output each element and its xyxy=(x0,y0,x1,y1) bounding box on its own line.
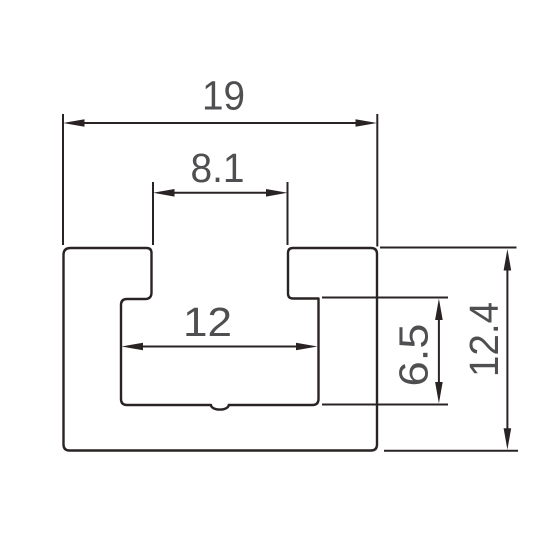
dimension 8.1: right arrowhead xyxy=(266,189,288,197)
dimension 12.4: extension line top xyxy=(380,247,517,249)
dimension 12.4: extension line bottom xyxy=(384,450,518,452)
svg-text:12: 12 xyxy=(183,299,232,345)
dimension 12: dimension line xyxy=(140,346,299,348)
dimension 6.5: extension line bottom xyxy=(322,404,448,406)
dimension 6.5: bottom arrowhead xyxy=(435,382,443,404)
dimension 8.1: dimension line xyxy=(172,192,269,194)
svg-text:6.5: 6.5 xyxy=(391,324,437,387)
dimension 12: right arrowhead xyxy=(296,343,318,351)
svg-text:19: 19 xyxy=(202,73,245,119)
dimension 19: dimension line xyxy=(82,122,358,124)
dimension 12.4: bottom arrowhead xyxy=(504,428,512,450)
dimension 19: right arrowhead xyxy=(356,119,378,127)
dimension 8.1: extension line left xyxy=(152,182,154,245)
dimension 8.1: left arrowhead xyxy=(153,189,175,197)
dimension 6.5: extension line top xyxy=(322,297,448,299)
dimension 19: extension line right xyxy=(376,114,378,247)
dimension 19: extension line left xyxy=(62,114,64,245)
profile outline (T-slot cross-section) xyxy=(64,248,378,451)
svg-text:12.4: 12.4 xyxy=(461,302,507,377)
svg-text:8.1: 8.1 xyxy=(191,145,245,191)
dimension 19: left arrowhead xyxy=(63,119,85,127)
dimension 12.4: dimension line xyxy=(506,267,508,431)
dimension 6.5: dimension line xyxy=(438,316,440,386)
dimension 6.5: top arrowhead xyxy=(435,299,443,321)
dimension 12.4: top arrowhead xyxy=(504,249,512,271)
dimension 8.1: extension line right xyxy=(287,182,289,245)
dimension 12: left arrowhead xyxy=(122,343,144,351)
